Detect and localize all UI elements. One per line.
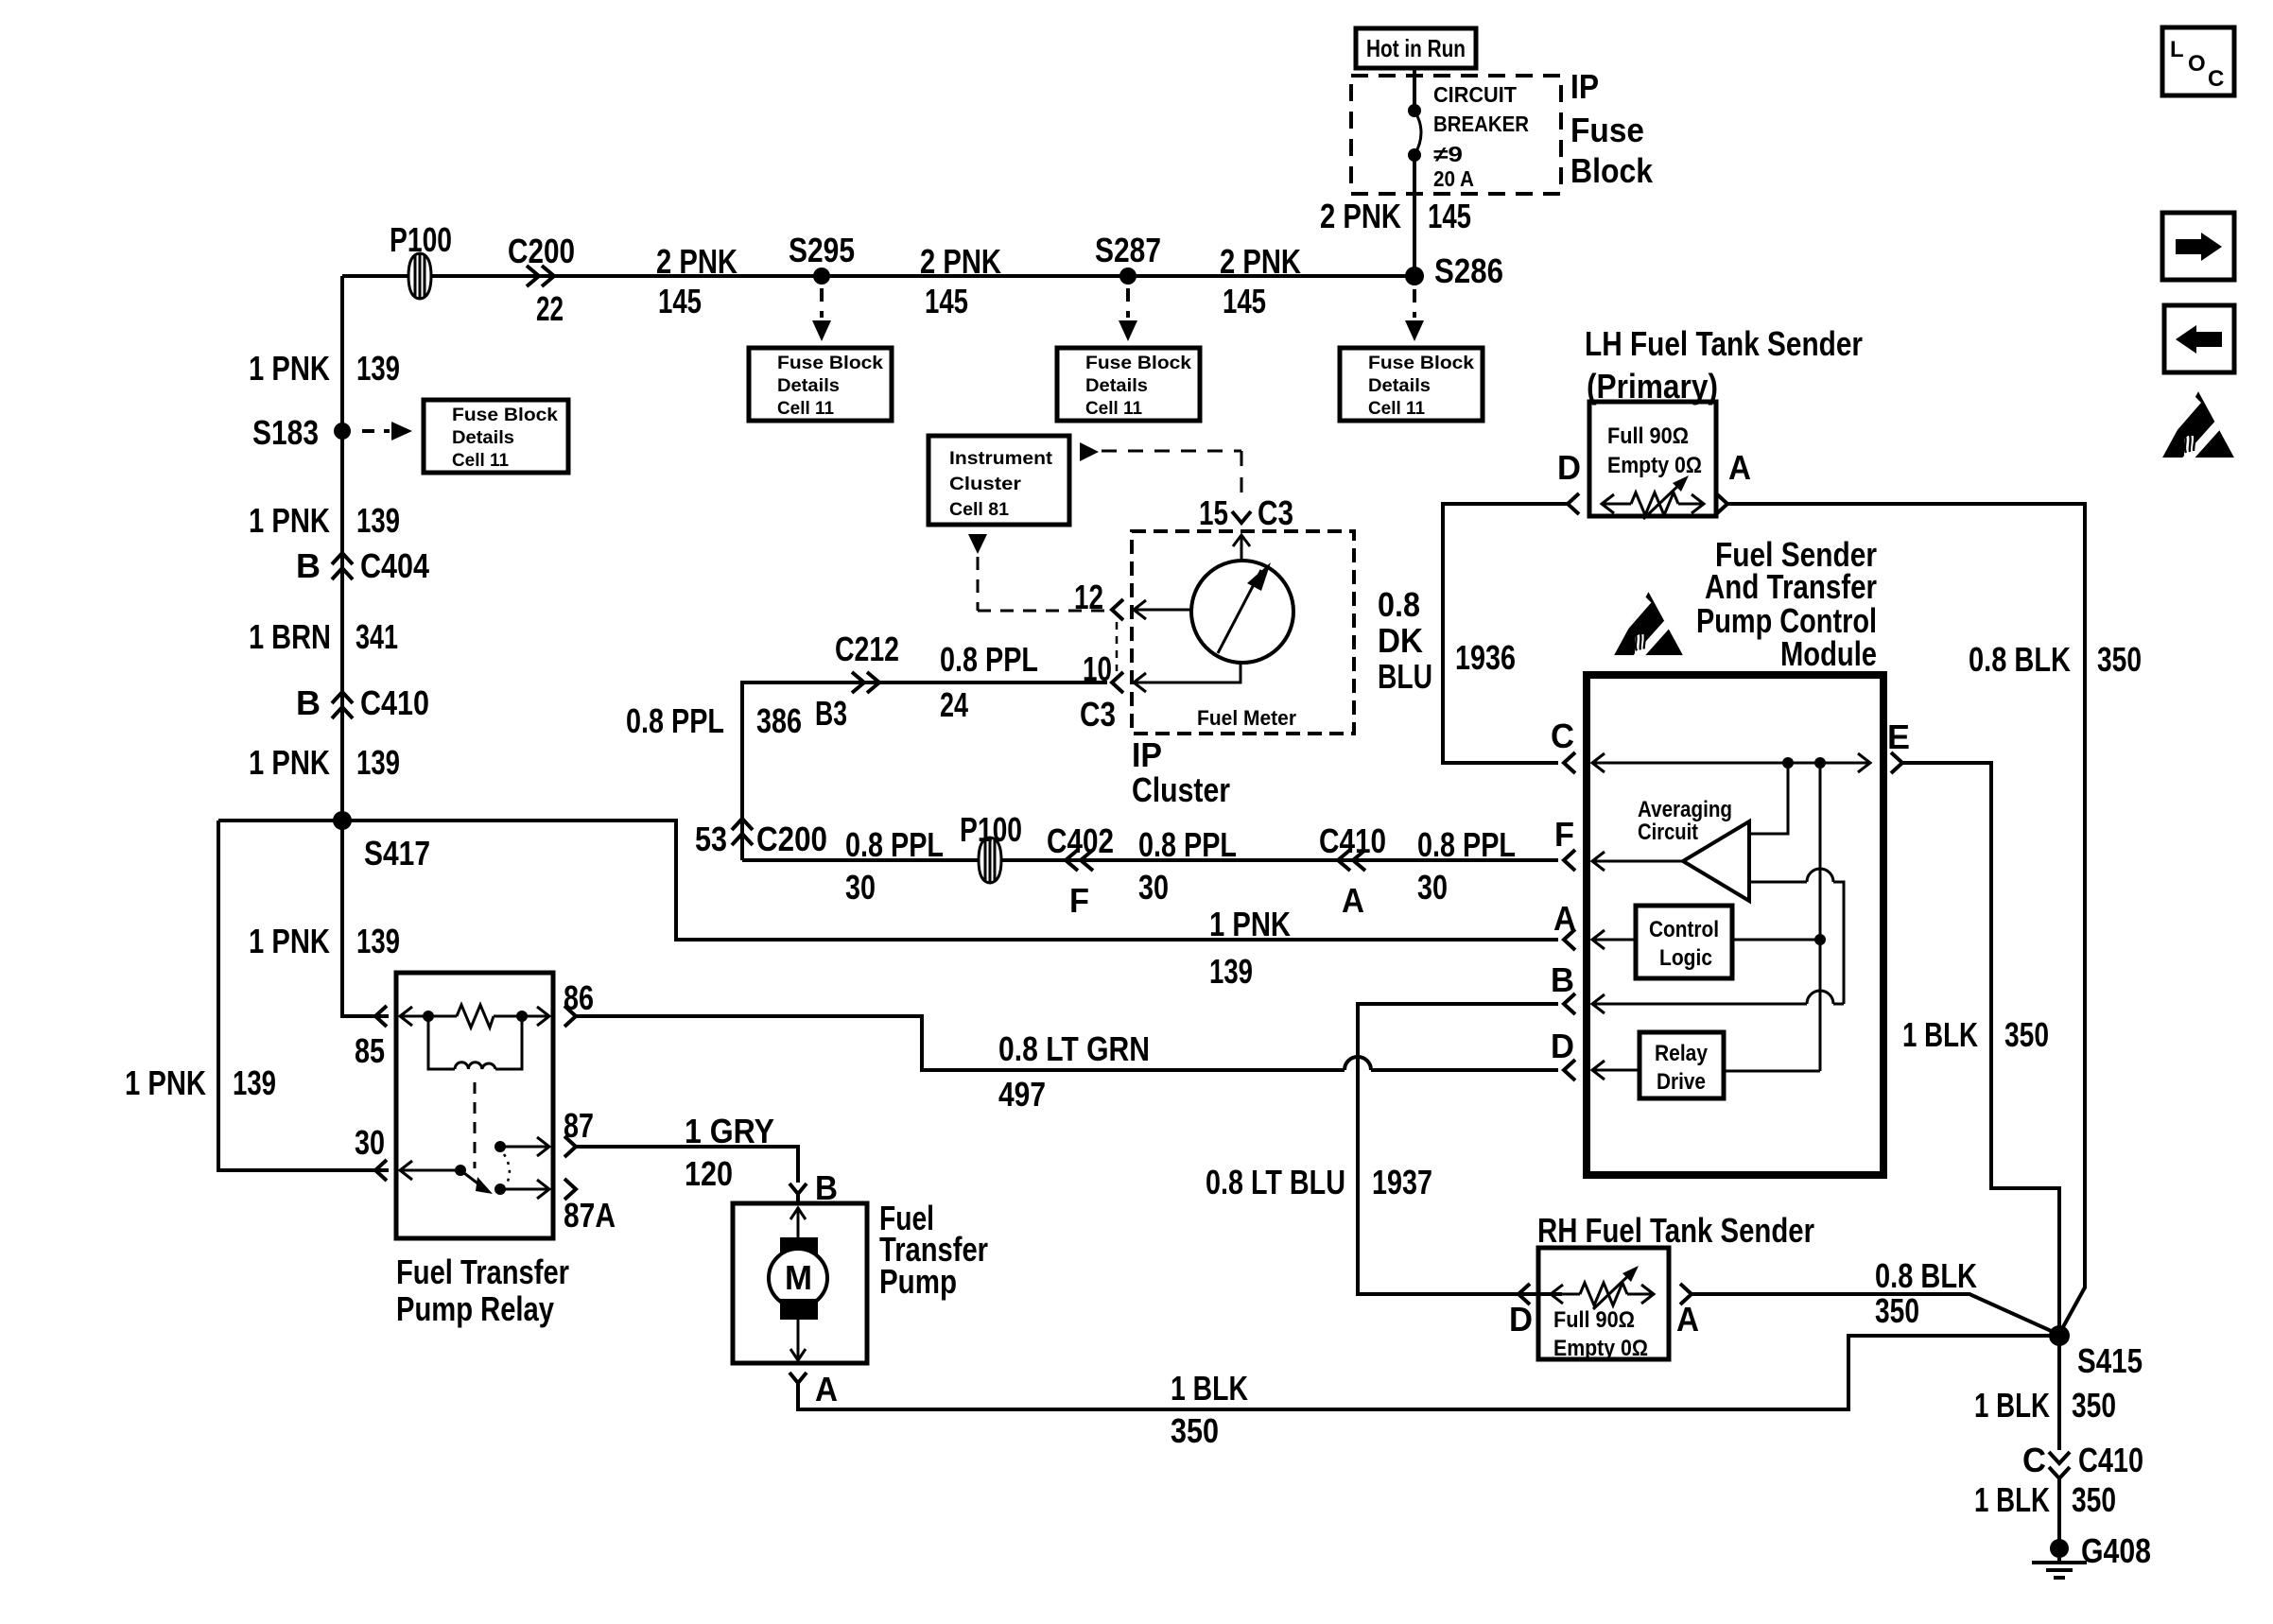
svg-text:1 BLK: 1 BLK (1974, 1386, 2050, 1425)
connector C410 pin B chevrons (332, 692, 353, 718)
svg-text:Empty 0Ω: Empty 0Ω (1553, 1336, 1648, 1361)
LH sender pin D chevron (1568, 493, 1579, 514)
node S183 (334, 423, 351, 440)
relay actuator dashed link (474, 1082, 477, 1168)
module internal wire pin B with hop to feedback (1592, 991, 1844, 1013)
label 139 (row3) (356, 743, 400, 782)
svg-text:Drive: Drive (1657, 1069, 1706, 1095)
svg-text:Cell 11: Cell 11 (1368, 398, 1425, 419)
reference arrow (right) from Instrument Cluster box (1080, 442, 1241, 503)
svg-text:2 PNK: 2 PNK (1220, 242, 1301, 281)
connector P100 (grommet) on PPL wire (979, 838, 1001, 883)
svg-text:S287: S287 (1095, 231, 1161, 269)
relay pin 86 chevron (564, 1006, 576, 1027)
svg-text:C: C (2208, 66, 2224, 92)
label 139 (row4) (356, 922, 400, 960)
svg-text:1 PNK: 1 PNK (249, 349, 330, 388)
label B (C404) (296, 546, 321, 585)
relay pin 87A chevron (564, 1179, 576, 1200)
label 350 (E wire) (2004, 1015, 2049, 1054)
svg-text:12: 12 (1074, 578, 1103, 616)
svg-text:Logic: Logic (1659, 945, 1712, 971)
label S183 (252, 413, 319, 452)
svg-text:BREAKER: BREAKER (1433, 112, 1529, 136)
label P100 (PPL wire) (960, 810, 1022, 849)
svg-text:350: 350 (2072, 1480, 2116, 1519)
svg-text:Fuel Transfer: Fuel Transfer (396, 1253, 569, 1291)
label 24 (940, 685, 968, 724)
svg-text:Averaging: Averaging (1638, 797, 1732, 822)
svg-text:A: A (1342, 881, 1364, 920)
label 15 (1199, 493, 1228, 532)
label 386 (756, 701, 802, 740)
label 53 (695, 820, 727, 858)
C3 connector dashed link pins 12-10 (1116, 622, 1119, 671)
ESD symbol (module) (1608, 592, 1683, 668)
label G408 (2081, 1531, 2151, 1570)
fuel meter wire to pin 10 (1134, 663, 1241, 692)
label C404 (360, 546, 429, 585)
label B3 (815, 694, 847, 733)
label 0.8 PPL (right) (1417, 825, 1516, 864)
svg-text:341: 341 (356, 617, 398, 656)
svg-text:DK: DK (1378, 621, 1423, 660)
svg-text:C212: C212 (835, 630, 899, 668)
svg-text:CIRCUIT: CIRCUIT (1433, 82, 1517, 107)
label 30 (right) (1417, 868, 1448, 907)
label 10 (1083, 649, 1112, 688)
label Fuel Transfer Pump Relay (396, 1253, 569, 1328)
svg-text:S286: S286 (1434, 251, 1503, 290)
motor M1 Fuel Transfer Pump box (733, 1203, 867, 1363)
svg-text:C3: C3 (1080, 695, 1116, 734)
svg-text:0.8 PPL: 0.8 PPL (1417, 825, 1516, 864)
svg-text:S183: S183 (252, 413, 319, 452)
reference arrow (down) from Instrument Cluster box (968, 534, 1106, 611)
svg-text:And Transfer: And Transfer (1705, 567, 1877, 606)
svg-text:Fuel Meter: Fuel Meter (1197, 706, 1296, 730)
svg-text:Full 90Ω: Full 90Ω (1607, 423, 1689, 449)
node S287 (1119, 268, 1136, 285)
label 139 (row2) (356, 501, 400, 540)
box Hot in Run (1356, 28, 1476, 68)
box Instrument Cluster Cell 81 (928, 436, 1069, 525)
label 2 PNK (right) (1220, 242, 1301, 281)
dashed reference arrow from S183 (362, 422, 412, 441)
relay dotted throw arc (504, 1154, 510, 1183)
label C402 (1047, 821, 1114, 860)
label 2 PNK (left) (656, 242, 737, 281)
op-amp output to pin F (1592, 852, 1683, 871)
svg-text:C3: C3 (1258, 493, 1293, 532)
svg-text:Cell 81: Cell 81 (949, 499, 1009, 520)
node S417 junction dot (333, 811, 352, 830)
svg-text:D: D (1557, 448, 1581, 487)
relay pin 30 chevron (375, 1160, 387, 1181)
sender R2 RH fuel tank sender box (1538, 1248, 1669, 1359)
label C410 (360, 683, 429, 722)
svg-text:Fuse Block: Fuse Block (1085, 353, 1191, 373)
label A (C410) (1342, 881, 1364, 920)
label 2 PNK (middle) (920, 242, 1001, 281)
label Fuel Meter (1197, 706, 1296, 730)
svg-text:1937: 1937 (1372, 1163, 1432, 1201)
label B (module) (1551, 960, 1574, 999)
label C212 (835, 630, 899, 668)
label C200 (pin 53) (756, 820, 827, 858)
svg-text:30: 30 (845, 868, 876, 907)
label 145 (middle) (925, 282, 968, 320)
legend right-arrow box (2162, 213, 2234, 280)
module internal bus C to E (1592, 753, 1870, 772)
svg-text:2 PNK: 2 PNK (656, 242, 737, 281)
svg-text:E: E (1887, 717, 1910, 756)
Relay Drive output line (1724, 1070, 1820, 1073)
Fuel Sender And Transfer Pump Control Module title (1696, 535, 1877, 673)
wire: 0.8 BLK 350 from RH sender A to S415 (1692, 1294, 2057, 1334)
relay K1 Fuel Transfer Pump Relay box (396, 973, 553, 1238)
Control Logic box (1636, 906, 1732, 978)
svg-text:1 PNK: 1 PNK (249, 743, 330, 782)
module pin E chevron (1891, 752, 1902, 773)
svg-text:C200: C200 (756, 820, 827, 858)
relay contact 87A (495, 1180, 549, 1199)
label Empty 0ohm (LH) (1607, 453, 1702, 478)
svg-text:10: 10 (1083, 649, 1112, 688)
wire: 1 BLK 350 from module pin E to S415 (1902, 763, 2059, 1336)
svg-text:1 PNK: 1 PNK (249, 922, 330, 960)
svg-text:139: 139 (356, 743, 400, 782)
op-amp averaging amplifier triangle (1683, 821, 1749, 901)
label Averaging Circuit (1638, 797, 1732, 845)
svg-text:C410: C410 (2078, 1441, 2143, 1479)
label 12 (1074, 578, 1103, 616)
connector C3 pin 10 chevron (1112, 672, 1123, 693)
svg-text:L: L (2170, 37, 2184, 62)
svg-text:P100: P100 (390, 220, 452, 259)
legend LOC box (2162, 27, 2234, 95)
motor brush block top (780, 1237, 818, 1258)
label C (module) (1551, 717, 1574, 755)
label 1 BRN (249, 617, 331, 656)
svg-text:87A: 87A (564, 1196, 616, 1235)
sender R1 LH fuel tank sender box (1589, 402, 1716, 516)
svg-text:145: 145 (1223, 282, 1266, 320)
svg-text:Instrument: Instrument (949, 448, 1053, 469)
label A (pump) (815, 1370, 838, 1408)
svg-text:S295: S295 (789, 231, 855, 269)
label F (C402) (1069, 881, 1089, 920)
svg-text:53: 53 (695, 820, 727, 858)
label 350 (right side) (2097, 640, 2142, 679)
label IP Cluster (1132, 735, 1230, 809)
label D (module) (1551, 1027, 1574, 1065)
relay pin 85 chevron (375, 1006, 387, 1027)
svg-text:Pump Relay: Pump Relay (396, 1289, 554, 1328)
reference box: Fuse Block Details Cell 11 (S295) (749, 348, 892, 421)
svg-text:F: F (1069, 881, 1089, 920)
svg-text:139: 139 (233, 1063, 276, 1102)
svg-text:B: B (296, 683, 321, 722)
svg-text:IP: IP (1132, 735, 1162, 774)
module internal junction dots on C-E bus (1782, 757, 1826, 769)
pump pin B connector fork (789, 1183, 807, 1203)
label A (module) (1553, 899, 1576, 938)
svg-text:145: 145 (1428, 197, 1471, 235)
wire: 0.8 LT GRN 497 from relay 86 to module pin D (576, 1016, 1345, 1070)
svg-text:0.8 BLK: 0.8 BLK (1875, 1256, 1977, 1295)
motor circle with M (769, 1249, 827, 1307)
wire: top 2 PNK 145 bus (342, 274, 1414, 278)
dashed reference drop from S286 (1405, 289, 1424, 341)
svg-text:497: 497 (998, 1075, 1046, 1114)
svg-text:22: 22 (536, 289, 564, 328)
label 0.8 LT BLU (1206, 1163, 1345, 1201)
svg-text:1 GRY: 1 GRY (685, 1112, 774, 1150)
label 145 (breaker wire) (1428, 197, 1471, 235)
label 1937 (1372, 1163, 1432, 1201)
svg-text:0.8 PPL: 0.8 PPL (626, 701, 724, 740)
label 497 (998, 1075, 1046, 1114)
wire: 1 PNK 139 from S417 down to relay pin 85 (342, 821, 389, 1016)
label 120 (685, 1154, 733, 1193)
svg-text:0.8 PPL: 0.8 PPL (845, 825, 944, 864)
svg-text:P100: P100 (960, 810, 1022, 849)
label 1 PNK (row5) (125, 1063, 206, 1102)
svg-text:350: 350 (2004, 1015, 2049, 1054)
label D (RH) (1509, 1300, 1533, 1339)
wire: 1 PNK 139 left vertical from top bus to S417 (340, 276, 344, 821)
svg-text:C: C (1551, 717, 1574, 755)
label 1 PNK (pin A wire) (1209, 905, 1291, 943)
label 0.8 DK BLU (stacked) (1378, 585, 1432, 696)
label 85 (355, 1031, 385, 1070)
reference box: Fuse Block Details Cell 11 (S183) (424, 400, 568, 473)
wire: 2 PNK 145 from Hot in Run through breaker to S286 (1413, 68, 1416, 276)
svg-text:C410: C410 (1319, 821, 1386, 860)
connector C200 pin 53 chevrons (732, 819, 753, 845)
label S287 (1095, 231, 1161, 269)
op-amp upper input from C-E bus (1749, 763, 1788, 834)
svg-text:350: 350 (2072, 1386, 2116, 1425)
label 0.8 PPL (C212 wire) (940, 640, 1038, 679)
svg-text:Details: Details (1368, 375, 1431, 396)
label Full 90ohm (RH) (1553, 1307, 1635, 1333)
svg-text:B: B (296, 546, 321, 585)
svg-text:1 PNK: 1 PNK (125, 1063, 206, 1102)
svg-text:C402: C402 (1047, 821, 1114, 860)
svg-text:24: 24 (940, 685, 968, 724)
svg-text:1 BLK: 1 BLK (1902, 1015, 1978, 1054)
svg-text:Details: Details (777, 375, 840, 396)
svg-text:Cluster: Cluster (1132, 770, 1230, 809)
svg-text:0.8 PPL: 0.8 PPL (1138, 825, 1237, 864)
module pin A chevron (1564, 929, 1575, 950)
svg-text:A: A (1553, 899, 1576, 938)
label 139 (pin A wire) (1209, 952, 1253, 991)
label C3 (pin 15) (1258, 493, 1293, 532)
svg-text:Block: Block (1570, 151, 1654, 190)
svg-text:Fuse: Fuse (1570, 111, 1644, 149)
RH sender pin A chevron (1680, 1284, 1692, 1304)
connector C200 chevrons on top bus (527, 266, 554, 286)
label S417 (364, 834, 430, 872)
dashed reference drop from S295 (812, 288, 831, 341)
svg-text:S415: S415 (2077, 1341, 2143, 1380)
label 1 BLK (below S415) (1974, 1386, 2050, 1425)
svg-text:Details: Details (452, 427, 514, 448)
wire: 0.8 LT BLU 1937 from module pin B to RH sender D (1358, 1004, 1562, 1294)
svg-text:1936: 1936 (1455, 638, 1516, 677)
label E (module) (1887, 717, 1910, 756)
svg-text:30: 30 (355, 1123, 385, 1162)
relay contact 87 (495, 1137, 549, 1156)
relay switch common arm (400, 1161, 493, 1194)
svg-text:139: 139 (356, 349, 400, 388)
label P100 (390, 220, 452, 259)
svg-text:85: 85 (355, 1031, 385, 1070)
svg-text:Full 90Ω: Full 90Ω (1553, 1307, 1635, 1333)
pump internal feed arrow (top) (790, 1207, 806, 1237)
connector C410 pin C chevrons (ground wire) (2049, 1452, 2070, 1478)
svg-text:1 PNK: 1 PNK (1209, 905, 1291, 943)
svg-text:C200: C200 (508, 232, 575, 270)
module internal wire pin A to Control Logic (1592, 930, 1636, 949)
label 0.8 PPL (mid) (1138, 825, 1237, 864)
label 350 (below S415) (2072, 1386, 2116, 1425)
svg-text:139: 139 (1209, 952, 1253, 991)
svg-text:1 PNK: 1 PNK (249, 501, 330, 540)
pump internal return arrow (bottom) (790, 1320, 806, 1361)
motor brush block bottom (780, 1299, 818, 1320)
module pin F chevron (1564, 850, 1575, 871)
svg-text:350: 350 (2097, 640, 2142, 679)
node S295 (813, 268, 830, 285)
svg-text:1 BLK: 1 BLK (1974, 1480, 2050, 1519)
svg-text:1 BLK: 1 BLK (1171, 1369, 1248, 1408)
label C200 (508, 232, 575, 270)
label C410 (PPL wire) (1319, 821, 1386, 860)
Relay Drive box (1640, 1032, 1724, 1098)
connector C410 chevrons (PPL wire) (1338, 850, 1365, 871)
label 1 PNK (row1) (249, 349, 330, 388)
label C3 (pin 10) (1080, 695, 1116, 734)
legend ESD symbol (2157, 391, 2234, 471)
label C (C410 ground) (2022, 1441, 2046, 1479)
connector P100 (pass-through grommet) on top bus (408, 253, 431, 299)
Control Logic output line and junction (1732, 934, 1826, 945)
label A (RH) (1676, 1300, 1699, 1339)
label 1 GRY (685, 1112, 774, 1150)
label A (LH) (1728, 448, 1751, 487)
label Fuel Transfer Pump (879, 1199, 988, 1301)
label B (C410) (296, 683, 321, 722)
svg-text:IP: IP (1570, 67, 1599, 106)
relay pin 87 chevron (564, 1136, 576, 1157)
label B (pump) (815, 1168, 838, 1207)
label 0.8 PPL (386 wire) (626, 701, 724, 740)
svg-text:C: C (2022, 1441, 2046, 1479)
svg-text:350: 350 (1171, 1411, 1219, 1450)
svg-text:386: 386 (756, 701, 802, 740)
label Full 90ohm (LH) (1607, 423, 1689, 449)
wire hop over LT BLU vertical (1345, 1057, 1371, 1070)
wire: 1 PNK 139 outer branch to relay pin 30 (218, 821, 389, 1170)
svg-text:0.8: 0.8 (1378, 585, 1420, 624)
label 22 (536, 289, 564, 328)
label 350 (G408 wire) (2072, 1480, 2116, 1519)
LH sender variable resistor element (1602, 475, 1704, 519)
svg-text:Cell 11: Cell 11 (777, 398, 834, 419)
LH Fuel Tank Sender (Primary) title (1585, 324, 1863, 406)
svg-text:F: F (1554, 815, 1574, 854)
label IP Fuse Block (1570, 67, 1654, 190)
module internal vertical from C-E bus to Relay Drive (1819, 763, 1822, 1071)
svg-text:Empty 0Ω: Empty 0Ω (1607, 453, 1702, 478)
svg-text:RH Fuel Tank Sender: RH Fuel Tank Sender (1537, 1211, 1814, 1250)
svg-text:0.8 LT BLU: 0.8 LT BLU (1206, 1163, 1345, 1201)
wire: 0.8 BLK 350 from LH sender A to S415 (1727, 504, 2085, 1334)
module pin B chevron (1564, 993, 1575, 1014)
wire: 0.8 PPL 386 from C212 down to C200 junction (742, 682, 1107, 860)
module pin C chevron (1564, 752, 1575, 773)
fuel meter needle (1218, 562, 1271, 653)
wire: 1 GRY 120 from relay 87 to pump pin B (576, 1147, 798, 1183)
fuel meter gauge circle (1191, 561, 1293, 663)
svg-text:M: M (785, 1258, 812, 1297)
LH sender pin A chevron (1716, 493, 1727, 514)
svg-text:0.8 PPL: 0.8 PPL (940, 640, 1038, 679)
label CIRCUIT BREAKER #9 20 A (1433, 82, 1529, 191)
fuel meter feed to pin 15 (1233, 535, 1250, 561)
connector C404 pin B chevrons (332, 553, 353, 579)
svg-text:A: A (815, 1370, 838, 1408)
label 30 (left) (845, 868, 876, 907)
svg-text:C404: C404 (360, 546, 429, 585)
reference box: Fuse Block Details Cell 11 (S286) (1340, 348, 1483, 421)
RH sender variable resistor element (1551, 1266, 1654, 1309)
RH sender pin D chevron (1518, 1284, 1530, 1304)
label 87 (564, 1106, 594, 1145)
svg-text:20 A: 20 A (1433, 166, 1474, 191)
reference box: Fuse Block Details Cell 11 (S287) (1057, 348, 1200, 421)
wire: 1 PNK 139 from S417 to module pin A (218, 821, 1558, 940)
svg-text:D: D (1551, 1027, 1574, 1065)
svg-text:139: 139 (356, 501, 400, 540)
label 0.8 BLK (right side) (1969, 640, 2071, 679)
svg-text:Fuse Block: Fuse Block (1368, 353, 1474, 373)
label 1 BLK (pump ground wire) (1171, 1369, 1248, 1408)
label S415 (2077, 1341, 2143, 1380)
svg-text:86: 86 (564, 978, 594, 1017)
svg-text:30: 30 (1138, 868, 1169, 907)
node S286 (1405, 267, 1424, 285)
module U1 box (1587, 675, 1883, 1175)
connector C402 chevrons (1066, 850, 1093, 871)
wire: 1 BLK 350 from S415 down to C410 (2057, 1336, 2061, 1450)
label 350 (RH wire) (1875, 1291, 1919, 1330)
legend left-arrow box (2164, 305, 2234, 372)
label 145 (left) (658, 282, 702, 320)
label S295 (789, 231, 855, 269)
svg-text:139: 139 (356, 922, 400, 960)
svg-text:350: 350 (1875, 1291, 1919, 1330)
svg-text:BLU: BLU (1378, 657, 1432, 696)
wire: 0.8 DK BLU 1936 from LH sender D to module pin C (1443, 504, 1568, 763)
pump pin A connector fork (789, 1373, 807, 1383)
IP Cluster dashed outline (1132, 531, 1354, 734)
svg-text:15: 15 (1199, 493, 1228, 532)
